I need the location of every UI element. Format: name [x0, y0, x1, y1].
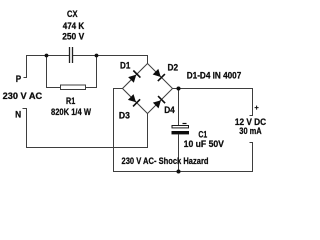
- node junction dot B: [95, 54, 99, 58]
- svg-text:CX: CX: [67, 9, 78, 19]
- wire negative terminal rise: [250, 143, 254, 173]
- wire negative branch vertical: [113, 88, 115, 172]
- terminal P lead: [24, 55, 28, 78]
- svg-text:N: N: [15, 109, 21, 119]
- wire positive terminal drop: [250, 88, 254, 116]
- wire C1 bottom lead: [178, 134, 180, 172]
- capacitor C1: [172, 124, 190, 135]
- svg-text:474 K: 474 K: [63, 21, 85, 31]
- wire top rail left: [26, 55, 69, 57]
- svg-text:D4: D4: [164, 105, 175, 115]
- svg-text:D1-D4 IN 4007: D1-D4 IN 4007: [187, 70, 242, 80]
- svg-text:+: +: [254, 103, 259, 112]
- wire R1 right branch: [86, 56, 97, 89]
- resistor R1: [61, 85, 86, 90]
- svg-text:820K 1/4 W: 820K 1/4 W: [51, 107, 91, 117]
- svg-text:230 V AC: 230 V AC: [3, 91, 43, 101]
- wire C1 top lead: [178, 88, 180, 126]
- wire N bottom rail: [26, 147, 148, 149]
- wire bridge left stub: [113, 88, 123, 90]
- svg-text:C1: C1: [198, 130, 207, 140]
- wire positive rail: [173, 88, 254, 90]
- wire negative rail bottom: [113, 171, 253, 173]
- terminal N lead: [23, 109, 28, 149]
- diode D1: [123, 64, 148, 89]
- svg-text:230 V AC- Shock Hazard: 230 V AC- Shock Hazard: [122, 156, 209, 166]
- diode D2: [148, 64, 173, 89]
- svg-text:250 V: 250 V: [62, 31, 84, 41]
- svg-text:D2: D2: [168, 62, 179, 72]
- node junction dot D: [177, 170, 181, 174]
- svg-text:R1: R1: [66, 96, 75, 106]
- wire bridge top drop: [147, 55, 149, 64]
- svg-text:D3: D3: [119, 110, 130, 120]
- capacitor CX: [70, 47, 73, 63]
- diode D4: [148, 89, 173, 114]
- svg-text:10 uF 50V: 10 uF 50V: [184, 139, 224, 149]
- svg-text:D1: D1: [120, 61, 130, 71]
- wire R1 left branch: [47, 56, 61, 88]
- diode D3: [123, 89, 148, 114]
- node junction dot C: [177, 87, 181, 91]
- wire bridge bottom drop: [147, 114, 149, 149]
- svg-text:30 mA: 30 mA: [239, 126, 262, 136]
- svg-text:P: P: [16, 74, 21, 84]
- node junction dot A: [45, 54, 49, 58]
- wire top rail right: [73, 55, 148, 57]
